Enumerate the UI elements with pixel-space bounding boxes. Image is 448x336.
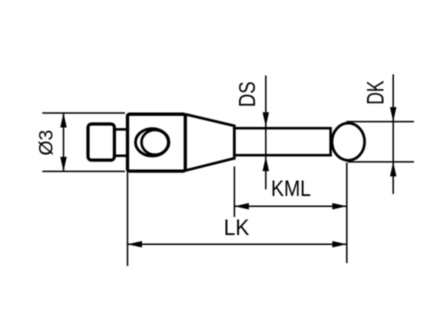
dim DS arrow down [263, 112, 270, 127]
dim KML dimension line [234, 205, 346, 207]
dim LK left extension line [127, 172, 129, 266]
ball center extension line [346, 163, 348, 264]
dim Ø3 bottom extension line [42, 170, 125, 172]
dim Ø3 top extension line [42, 112, 125, 114]
stylus taper cone [186, 114, 235, 170]
stylus thread cylinder [88, 124, 114, 160]
stylus body hole inner circle [142, 130, 169, 155]
dim KML arrow left [234, 203, 249, 210]
dim LK arrow right [332, 241, 347, 248]
dim Ø3 arrow up [60, 113, 67, 128]
svg-text:DK: DK [363, 81, 390, 105]
stylus stem shaft [234, 128, 330, 155]
dim KML arrow right [332, 203, 347, 210]
dim DK top extension line [346, 121, 414, 123]
dim DK bottom extension line [348, 161, 414, 163]
stylus neck wire [114, 129, 127, 155]
stylus ball [332, 123, 365, 160]
svg-text:Ø3: Ø3 [37, 130, 58, 156]
dim DS arrow up [263, 157, 270, 172]
dim LK dimension line [128, 243, 347, 245]
stylus body hole outer ellipse [136, 129, 169, 156]
stylus body [128, 114, 186, 171]
dim DS dimension line upper [265, 76, 267, 190]
dim Ø3 arrow down [60, 157, 67, 172]
svg-text:KML: KML [271, 176, 311, 201]
dim DK dimension line upper [392, 74, 394, 194]
dim KML left extension line [233, 166, 235, 217]
dim LK arrow left [128, 241, 143, 248]
svg-text:LK: LK [224, 215, 250, 240]
dim Ø3 dimension line [63, 113, 65, 171]
svg-text:DS: DS [234, 81, 260, 107]
dim DK arrow down [390, 107, 397, 122]
dim DK arrow up [390, 162, 397, 177]
